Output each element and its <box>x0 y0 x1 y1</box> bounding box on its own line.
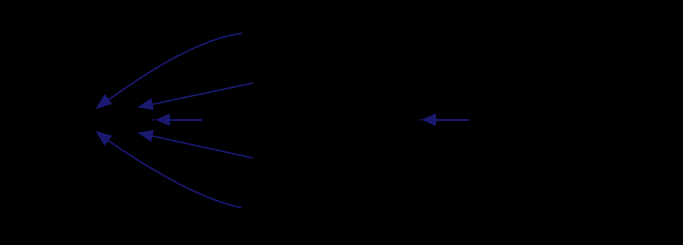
arrow 5: bottom curved arrow <box>96 131 242 208</box>
arrow 1: top curved arrow <box>96 33 242 109</box>
arrow 2: upper straight arrow <box>137 83 253 110</box>
arrow 6: right horizontal arrow <box>419 114 469 126</box>
arrow 3: middle short horizontal arrow <box>152 114 202 126</box>
arrow 4: lower straight arrow <box>137 130 252 158</box>
